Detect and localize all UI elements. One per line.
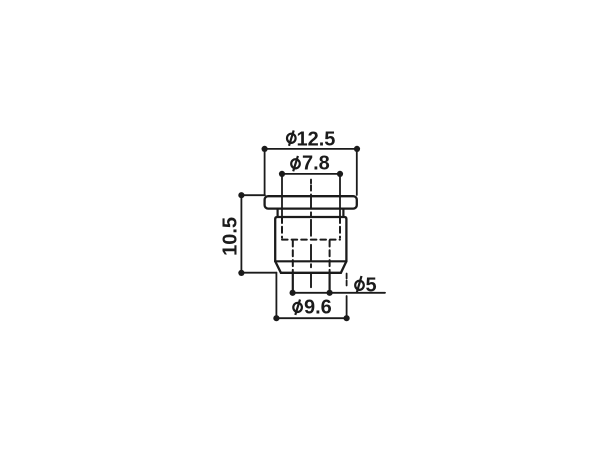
- main body (phi 9.6) with chamfered bottom: [275, 217, 346, 261]
- chamfer slopes and bottom edge: [275, 261, 346, 273]
- svg-text:12.5: 12.5: [297, 129, 336, 151]
- dim phi9.6: line + dots + extension lines: [276, 317, 346, 319]
- hidden shoulder (dashed): [282, 239, 340, 241]
- dim phi5: line through tube bottom, dots at tube walls: [292, 292, 385, 294]
- vertical centerline (dash-dot): [310, 180, 312, 288]
- svg-text:5: 5: [366, 275, 377, 297]
- svg-text:7.8: 7.8: [302, 153, 330, 175]
- dim 10.5 (left, vertical): line + dots + extension lines: [240, 195, 242, 273]
- flange (top lip, phi 12.5): [265, 196, 357, 208]
- step ring below flange: [278, 209, 344, 217]
- label phi5: [355, 276, 364, 292]
- hidden tube walls inside body (dashed): [293, 241, 330, 273]
- svg-text:10.5: 10.5: [220, 217, 242, 256]
- dim phi12.5: line + end dots + extension lines: [265, 148, 357, 150]
- svg-text:9.6: 9.6: [304, 296, 332, 318]
- label phi12.5: [287, 130, 296, 145]
- chamfer top edge: [275, 260, 346, 262]
- hidden bore phi 7.8 (dashed): [282, 217, 340, 238]
- label phi9.6: [293, 300, 302, 315]
- bottom tube (phi 5), visible part: [293, 273, 330, 293]
- label phi7.8: [291, 156, 300, 171]
- dim phi7.8: line + end dots + extension lines through flange: [282, 173, 340, 175]
